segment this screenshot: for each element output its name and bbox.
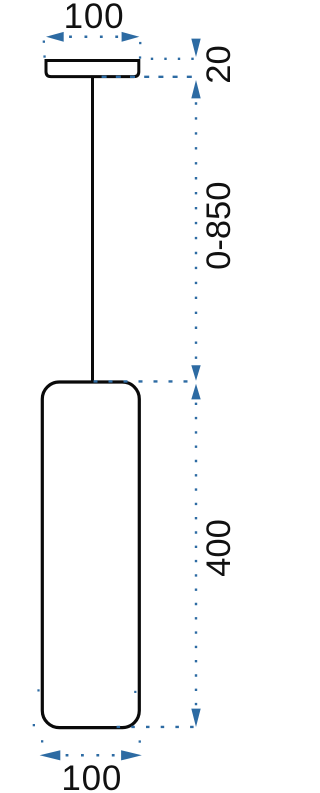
dim 100 top arrow right xyxy=(122,32,140,42)
dim 400 arrow up xyxy=(191,384,200,400)
svg-text:400: 400 xyxy=(200,519,238,577)
stray dot on lampshade left edge xyxy=(37,689,39,691)
stray dot left of lampshade bottom xyxy=(33,724,35,726)
dim 0-850 arrow down xyxy=(191,365,200,381)
dim 400 dotted line xyxy=(195,403,197,706)
dim 100 top arrow left xyxy=(46,32,64,42)
svg-text:100: 100 xyxy=(64,0,125,36)
canopy corner dot left xyxy=(43,55,45,57)
svg-text:20: 20 xyxy=(200,45,238,83)
ext dashed line at lampshade bottom xyxy=(117,726,194,728)
canopy xyxy=(46,61,139,77)
dim 400 arrow down xyxy=(191,709,200,727)
dim 20 ext dotted line from canopy top xyxy=(151,58,194,60)
lampshade xyxy=(42,382,139,728)
svg-text:100: 100 xyxy=(61,759,122,793)
dim 20 ext dashed line from canopy bottom xyxy=(102,76,192,78)
dim 100 bottom arrow right xyxy=(121,750,142,760)
dim 0-850 arrow up xyxy=(191,80,200,98)
canopy corner dot right xyxy=(139,56,141,58)
dim 20 arrow down xyxy=(191,39,200,57)
svg-text:0-850: 0-850 xyxy=(200,182,238,270)
dim 100 bottom ext dot right xyxy=(139,740,141,742)
dim 100 bottom ext dot left xyxy=(41,740,43,742)
dim 100 bottom arrow left xyxy=(40,750,61,760)
dim 0-850 dotted line xyxy=(195,102,197,360)
dim 100 top dotted line xyxy=(69,36,118,39)
cord xyxy=(91,78,94,382)
ext dashed line at lampshade top xyxy=(94,380,193,382)
dim 100 top tick left xyxy=(43,41,45,43)
dim 100 bottom dotted line xyxy=(66,754,115,757)
stray dot on lampshade right edge xyxy=(134,691,136,693)
dim 100 top tick right xyxy=(139,42,141,44)
